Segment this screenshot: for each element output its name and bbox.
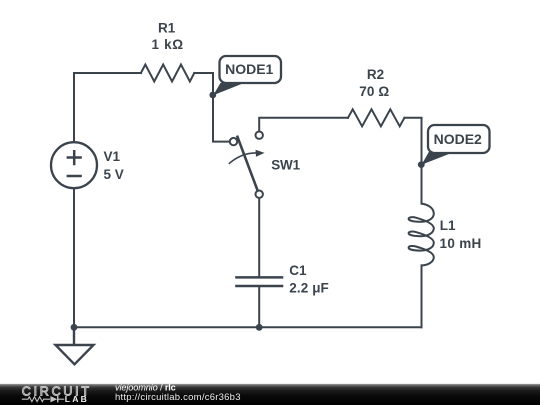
svg-text:2.2 μF: 2.2 μF xyxy=(289,281,329,296)
footer bar xyxy=(0,384,540,405)
svg-text:R2: R2 xyxy=(367,67,384,82)
resistor R1 xyxy=(141,65,194,82)
inductor L1 xyxy=(409,204,434,266)
switch blade xyxy=(237,136,258,191)
svg-text:SW1: SW1 xyxy=(271,158,300,173)
wire R1 to NODE1 corner and down to switch xyxy=(194,73,230,142)
ground xyxy=(56,327,94,364)
svg-text:C1: C1 xyxy=(289,263,307,278)
wire V1 bottom to ground rail xyxy=(73,188,75,327)
svg-text:1 kΩ: 1 kΩ xyxy=(152,37,184,52)
svg-text:NODE2: NODE2 xyxy=(434,131,482,147)
svg-text:viejoomnio / rlc: viejoomnio / rlc xyxy=(115,382,176,392)
wire C1 bottom to rail xyxy=(258,286,260,327)
svg-text:L1: L1 xyxy=(440,218,456,233)
wire R2 to NODE2 corner down to L1 xyxy=(404,118,421,204)
junction dot C1/rail xyxy=(256,324,263,331)
wire L1 bottom to rail xyxy=(421,265,423,327)
footer logo diode xyxy=(50,396,57,402)
svg-text:R1: R1 xyxy=(158,21,176,36)
bottom rail wire xyxy=(74,326,422,328)
svg-text:V1: V1 xyxy=(104,149,121,164)
capacitor C1 xyxy=(235,277,283,286)
node junction dots xyxy=(71,92,425,331)
node dot NODE1 xyxy=(209,92,216,99)
svg-text:LAB: LAB xyxy=(65,394,89,404)
wire switch bottom to C1 xyxy=(258,198,260,277)
switch arc arrow xyxy=(229,153,257,164)
footer logo resistor zigzag xyxy=(22,397,50,402)
NODE1 flag xyxy=(213,56,281,95)
junction dot ground/rail xyxy=(71,324,78,331)
svg-text:http://circuitlab.com/c6r36b3: http://circuitlab.com/c6r36b3 xyxy=(115,392,241,403)
svg-text:NODE1: NODE1 xyxy=(225,61,273,77)
resistor R2 xyxy=(348,109,404,126)
svg-text:5 V: 5 V xyxy=(104,167,124,182)
voltage source V1 xyxy=(51,142,97,188)
wire switch right terminal up and to R2 xyxy=(259,118,348,132)
svg-text:70 Ω: 70 Ω xyxy=(359,84,389,99)
svg-text:10 mH: 10 mH xyxy=(440,236,482,251)
switch SW1 xyxy=(229,132,265,198)
node dot NODE2 xyxy=(418,161,425,168)
NODE2 flag xyxy=(422,125,490,165)
switch terminals xyxy=(230,138,237,145)
wire top-left: V1 top to R1 xyxy=(74,73,141,142)
